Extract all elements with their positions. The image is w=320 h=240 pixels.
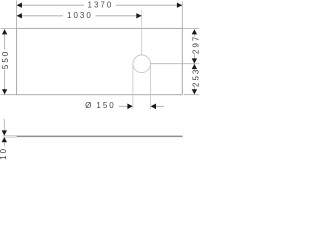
- dimension 1030 line: [17, 15, 63, 17]
- arrow 1030 right: [136, 13, 141, 18]
- arrow 1370 left: [17, 3, 22, 8]
- slab extension lines left: [3, 135, 17, 137]
- arrow 1030 left: [17, 13, 22, 18]
- dimension 253 line: [193, 68, 195, 71]
- dimension Ø150 left arrow: [119, 105, 128, 107]
- arrow 253 top: [192, 64, 197, 69]
- svg-text:10: 10: [0, 147, 8, 160]
- svg-text:550: 550: [1, 50, 10, 69]
- arrow 297 top: [192, 29, 197, 34]
- arrow 253 bottom: [192, 89, 197, 94]
- extension line right (above rect): [181, 1, 183, 28]
- basin hole circle Ø150: [133, 55, 151, 73]
- dimension 297 line: [193, 34, 195, 36]
- arrow 550 top: [2, 29, 7, 34]
- circle tangent extension lines down: [132, 64, 134, 110]
- extension line circle center up to 1030 dim: [141, 10, 143, 55]
- dimension 10 upper tail: [3, 119, 5, 131]
- dimension Ø150 right arrow: [156, 105, 165, 107]
- dimension 1370 line: [17, 4, 84, 6]
- extension line left (above rect): [16, 1, 18, 29]
- side view slab: [17, 136, 183, 138]
- svg-text:253: 253: [191, 68, 200, 87]
- extension lines for 550 (left of rect): [1, 27, 17, 29]
- svg-text:297: 297: [191, 35, 200, 54]
- arrow 10 up: [2, 137, 7, 142]
- svg-text:1030: 1030: [67, 11, 93, 20]
- svg-text:150: 150: [96, 101, 115, 110]
- dimension 550 line: [4, 29, 6, 49]
- arrow 297 bottom: [192, 58, 197, 63]
- svg-text:1370: 1370: [88, 1, 114, 10]
- arrow 10 down: [2, 130, 7, 135]
- dimension 10 lower tail: [3, 142, 5, 146]
- arrow 1370 right: [177, 3, 182, 8]
- svg-text:Ø: Ø: [85, 101, 93, 110]
- extension lines right side: [182, 27, 199, 29]
- arrow 550 bottom: [2, 89, 7, 94]
- countertop plan-view rectangle: [17, 28, 183, 94]
